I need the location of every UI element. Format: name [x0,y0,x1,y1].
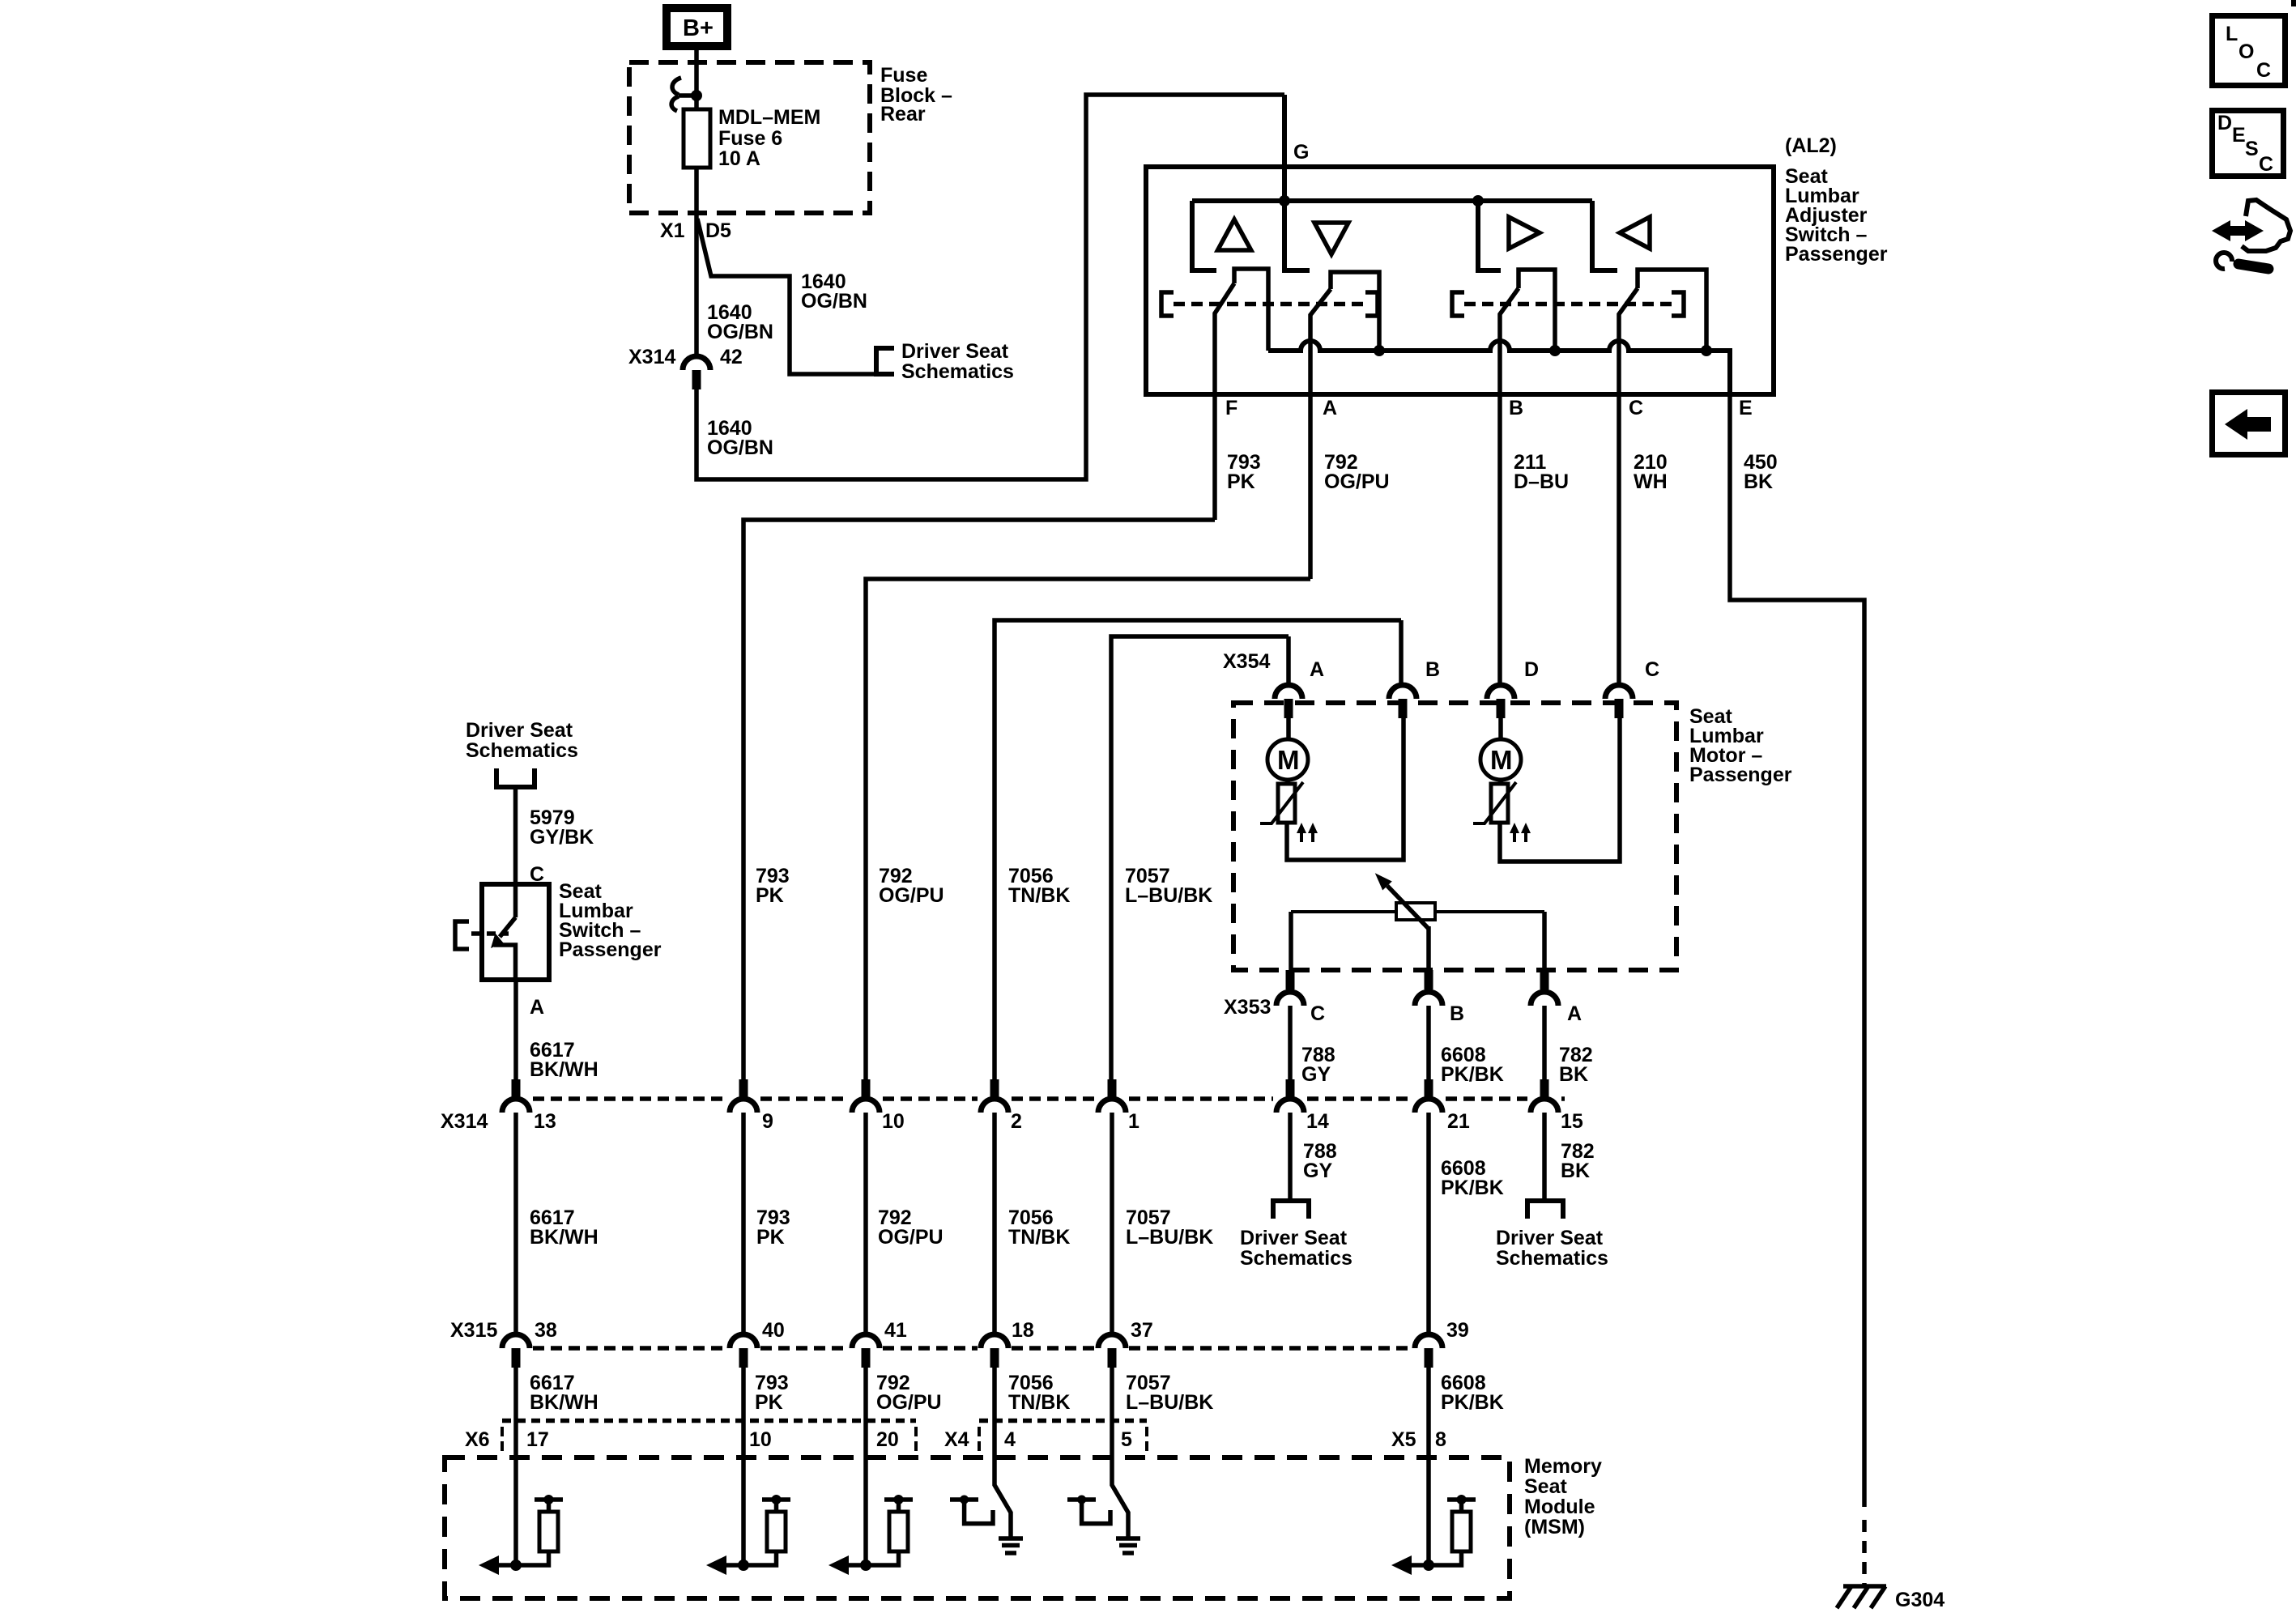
svg-text:E: E [2232,124,2246,147]
svg-text:X6: X6 [465,1428,490,1451]
svg-text:BK: BK [1561,1160,1590,1182]
svg-text:OG/BN: OG/BN [707,321,773,343]
svg-text:M: M [1490,745,1513,775]
svg-text:L: L [2226,23,2238,45]
svg-text:38: 38 [535,1319,557,1342]
svg-text:Fuse 6: Fuse 6 [718,127,782,150]
svg-text:Rear: Rear [880,103,926,126]
svg-text:D–BU: D–BU [1514,470,1569,493]
svg-text:21: 21 [1447,1110,1470,1133]
svg-text:PK: PK [756,1226,785,1249]
svg-text:MDL–MEM: MDL–MEM [718,106,820,129]
svg-text:BK: BK [1559,1063,1588,1086]
svg-text:(MSM): (MSM) [1524,1516,1585,1538]
svg-text:20: 20 [876,1428,899,1451]
svg-text:OG/BN: OG/BN [707,436,773,459]
svg-text:G: G [1293,141,1309,164]
svg-text:5: 5 [1121,1428,1132,1451]
svg-text:PK: PK [755,1391,783,1414]
svg-text:D: D [2217,112,2232,134]
svg-text:PK: PK [1227,470,1255,493]
svg-text:WH: WH [1634,470,1668,493]
svg-text:C: C [2259,153,2273,176]
svg-text:Schematics: Schematics [1240,1247,1352,1270]
svg-text:C: C [1645,658,1659,681]
svg-text:Driver Seat: Driver Seat [1240,1227,1348,1249]
svg-text:D: D [1524,658,1539,681]
svg-text:8: 8 [1435,1428,1446,1451]
svg-text:BK/WH: BK/WH [530,1391,598,1414]
svg-text:BK: BK [1744,470,1773,493]
svg-text:BK/WH: BK/WH [530,1226,598,1249]
svg-text:GY: GY [1301,1063,1331,1086]
svg-text:Driver Seat: Driver Seat [1496,1227,1604,1249]
svg-text:Schematics: Schematics [466,739,578,762]
svg-text:S: S [2245,138,2259,160]
svg-text:40: 40 [762,1319,785,1342]
svg-text:37: 37 [1131,1319,1153,1342]
svg-text:OG/PU: OG/PU [876,1391,942,1414]
svg-text:(AL2): (AL2) [1785,134,1837,157]
svg-text:GY: GY [1303,1160,1332,1182]
svg-text:2: 2 [1011,1110,1022,1133]
svg-text:OG/BN: OG/BN [801,290,867,313]
svg-text:X5: X5 [1391,1428,1416,1451]
svg-text:X354: X354 [1223,650,1270,673]
svg-text:X315: X315 [450,1319,497,1342]
svg-text:C: C [1629,397,1643,419]
svg-text:X4: X4 [944,1428,969,1451]
svg-text:L–BU/BK: L–BU/BK [1126,1391,1213,1414]
svg-text:Fuse: Fuse [880,64,927,87]
svg-text:10: 10 [882,1110,905,1133]
svg-text:41: 41 [884,1319,907,1342]
svg-text:Schematics: Schematics [1496,1247,1608,1270]
svg-text:Driver Seat: Driver Seat [466,719,573,742]
svg-text:15: 15 [1561,1110,1583,1133]
svg-text:G304: G304 [1895,1589,1945,1611]
svg-text:Passenger: Passenger [1689,764,1792,786]
svg-text:PK/BK: PK/BK [1441,1063,1504,1086]
svg-text:B: B [1450,1002,1464,1025]
svg-text:C: C [1310,1002,1325,1025]
svg-text:Schematics: Schematics [901,360,1014,383]
svg-text:OG/PU: OG/PU [878,1226,944,1249]
svg-text:Seat: Seat [1524,1475,1567,1498]
svg-text:14: 14 [1306,1110,1329,1133]
svg-text:X314: X314 [441,1110,488,1133]
svg-text:Passenger: Passenger [559,938,662,961]
svg-text:BK/WH: BK/WH [530,1058,598,1081]
svg-text:TN/BK: TN/BK [1008,1391,1070,1414]
svg-text:X353: X353 [1224,996,1271,1019]
svg-text:PK: PK [756,884,784,907]
svg-text:O: O [2238,40,2254,63]
svg-text:10 A: 10 A [718,147,760,170]
svg-text:TN/BK: TN/BK [1008,1226,1070,1249]
svg-text:Driver Seat: Driver Seat [901,340,1009,363]
svg-text:42: 42 [720,346,743,368]
svg-text:X1: X1 [660,219,685,242]
svg-text:TN/BK: TN/BK [1008,884,1070,907]
svg-text:A: A [1310,658,1324,681]
svg-text:A: A [1323,397,1337,419]
svg-text:Passenger: Passenger [1785,243,1888,266]
svg-text:B: B [1425,658,1440,681]
svg-text:A: A [530,996,544,1019]
svg-text:13: 13 [534,1110,556,1133]
svg-text:OG/PU: OG/PU [879,884,944,907]
svg-text:10: 10 [749,1428,772,1451]
svg-text:OG/PU: OG/PU [1324,470,1390,493]
svg-text:X314: X314 [628,346,675,368]
svg-text:F: F [1225,397,1237,419]
svg-text:A: A [1567,1002,1582,1025]
svg-text:D5: D5 [705,219,731,242]
svg-text:C: C [2256,59,2271,82]
svg-text:L–BU/BK: L–BU/BK [1126,1226,1213,1249]
svg-text:Memory: Memory [1524,1455,1602,1478]
svg-text:17: 17 [526,1428,549,1451]
svg-text:PK/BK: PK/BK [1441,1391,1504,1414]
svg-text:L–BU/BK: L–BU/BK [1125,884,1212,907]
svg-text:M: M [1277,745,1300,775]
svg-text:PK/BK: PK/BK [1441,1177,1504,1199]
svg-text:18: 18 [1012,1319,1034,1342]
svg-text:GY/BK: GY/BK [530,826,594,849]
svg-text:B: B [1509,397,1523,419]
svg-text:E: E [1739,397,1753,419]
svg-text:9: 9 [762,1110,773,1133]
svg-text:1: 1 [1128,1110,1139,1133]
svg-text:B+: B+ [683,15,714,41]
svg-text:39: 39 [1446,1319,1469,1342]
svg-text:Module: Module [1524,1496,1595,1518]
svg-text:4: 4 [1004,1428,1016,1451]
